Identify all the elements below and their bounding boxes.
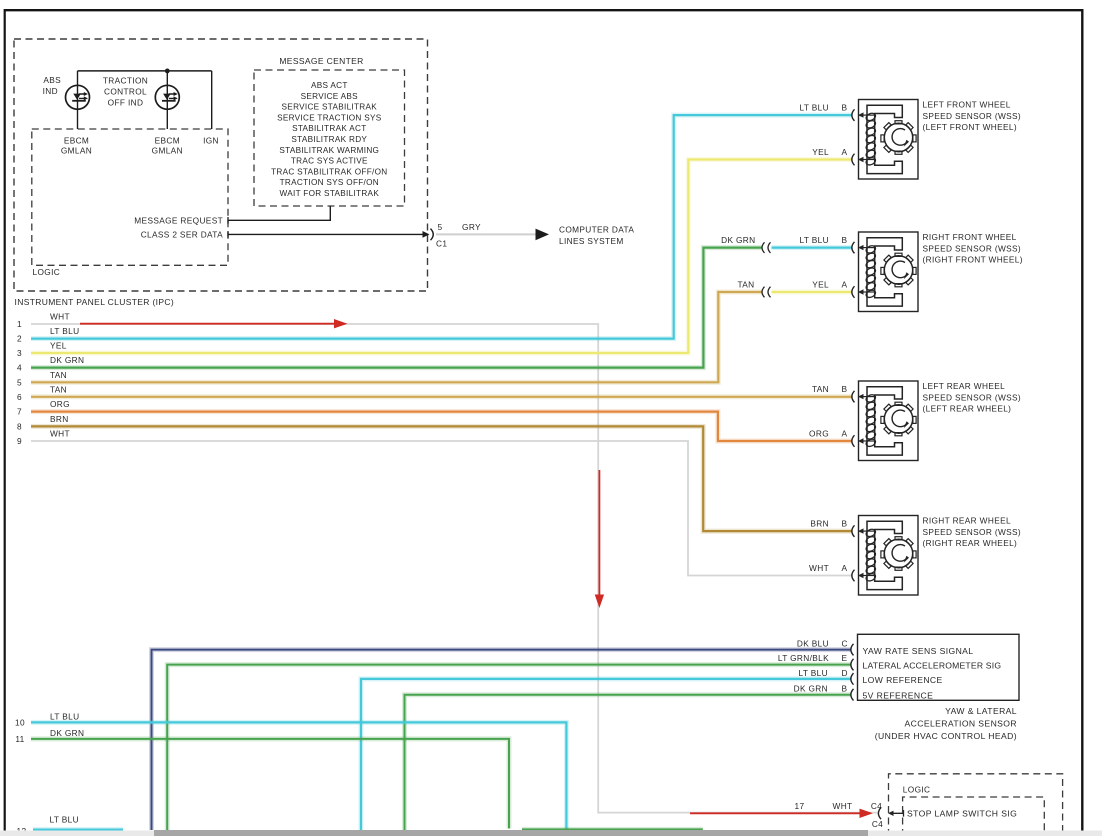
sensor right rear WSS [852,516,918,596]
svg-text:BRN: BRN [810,519,829,529]
svg-text:A: A [842,280,848,290]
sensor left front WSS [852,100,918,180]
wire 6 TAN [31,394,852,399]
svg-text:LEFT FRONT WHEEL: LEFT FRONT WHEEL [923,100,1011,110]
yaw sensor box [858,634,1020,700]
svg-text:2: 2 [17,334,22,344]
wire 4 DK GRN [31,248,762,368]
svg-text:A: A [842,147,848,157]
wire 9 WHT [31,441,852,576]
svg-text:(RIGHT FRONT WHEEL): (RIGHT FRONT WHEEL) [923,255,1023,265]
wire lamp1 vertical [77,71,79,129]
svg-text:EBCM: EBCM [64,136,89,146]
message center text list [271,81,387,198]
svg-text:A: A [842,563,848,573]
wire lamp2 vertical [166,71,168,129]
scrollbar track [0,831,1102,836]
svg-text:YEL: YEL [812,280,829,290]
svg-text:TAN: TAN [737,280,754,290]
wire LT BLU low ref [361,679,852,830]
svg-text:LOW REFERENCE: LOW REFERENCE [863,675,943,685]
connector C1 pin 5 [423,231,430,238]
wire 5 TAN [31,292,762,382]
svg-text:LT BLU: LT BLU [800,103,829,113]
wire 10 LT BLU [31,722,566,830]
svg-text:B: B [842,519,848,529]
svg-text:CONTROL: CONTROL [104,87,147,97]
sensor right front WSS [852,232,918,312]
svg-text:OFF IND: OFF IND [108,98,144,108]
LOGIC dashed box (EBCM) [889,774,1063,836]
svg-text:SPEED SENSOR (WSS): SPEED SENSOR (WSS) [923,243,1022,253]
svg-text:IND: IND [43,86,58,96]
svg-text:YEL: YEL [50,341,67,351]
svg-text:6: 6 [17,392,22,402]
svg-text:TAN: TAN [812,384,829,394]
splice S2 A [762,287,771,298]
svg-text:WAIT FOR STABILITRAK: WAIT FOR STABILITRAK [280,189,380,198]
svg-text:SERVICE STABILITRAK: SERVICE STABILITRAK [282,103,378,112]
svg-text:WHT: WHT [50,429,70,439]
frame left [4,9,6,831]
wire LT GRN/BLK lateral accel [167,665,851,830]
svg-text:TRACTION SYS OFF/ON: TRACTION SYS OFF/ON [280,178,379,187]
svg-text:LT GRN/BLK: LT GRN/BLK [778,653,829,663]
svg-text:DK GRN: DK GRN [50,355,84,365]
svg-text:B: B [842,103,848,113]
svg-text:MESSAGE REQUEST: MESSAGE REQUEST [134,215,223,225]
svg-text:GRY: GRY [462,222,481,232]
svg-text:TRAC SYS ACTIVE: TRAC SYS ACTIVE [291,157,368,166]
svg-text:ABS: ABS [43,75,61,85]
connector C4 socket [878,808,881,820]
svg-text:LOGIC: LOGIC [33,267,61,277]
svg-text:(UNDER HVAC CONTROL HEAD): (UNDER HVAC CONTROL HEAD) [875,731,1017,741]
svg-text:TRAC STABILITRAK OFF/ON: TRAC STABILITRAK OFF/ON [271,167,387,176]
svg-text:17: 17 [795,801,805,811]
wire 1 WHT [31,324,878,813]
scrollbar thumb [154,830,868,836]
svg-text:ABS ACT: ABS ACT [311,81,348,90]
svg-text:LT BLU: LT BLU [799,668,828,678]
svg-text:RIGHT REAR WHEEL: RIGHT REAR WHEEL [923,516,1011,526]
svg-text:11: 11 [15,734,24,744]
svg-text:YEL: YEL [812,147,829,157]
svg-text:B: B [842,235,848,245]
wire 12 LT BLU [33,827,123,832]
svg-text:TAN: TAN [50,370,67,380]
svg-text:YAW & LATERAL: YAW & LATERAL [945,706,1017,716]
wire class 2 serial data [228,233,425,235]
message center dashed box [254,70,405,206]
wire 2 LT BLU [31,115,852,339]
svg-text:WHT: WHT [50,312,70,322]
svg-text:E: E [842,653,848,663]
svg-text:MESSAGE CENTER: MESSAGE CENTER [279,56,363,66]
wire 8 BRN [31,426,852,531]
svg-text:C1: C1 [436,239,447,249]
wire 3 YEL [31,160,852,354]
svg-text:5: 5 [438,222,443,232]
svg-text:COMPUTER DATA: COMPUTER DATA [559,224,634,234]
red arrow wire 1 [80,323,336,325]
wire 5b YEL to sensor 2 pin A [772,290,852,295]
frame right [1081,9,1083,831]
svg-text:(LEFT REAR WHEEL): (LEFT REAR WHEEL) [923,404,1012,414]
svg-text:SERVICE ABS: SERVICE ABS [301,92,359,101]
svg-text:8: 8 [17,421,22,431]
svg-text:STABILITRAK RDY: STABILITRAK RDY [291,135,367,144]
svg-text:LT BLU: LT BLU [50,326,79,336]
svg-text:WHT: WHT [809,563,829,573]
stop lamp arrow [891,810,904,817]
svg-text:LT BLU: LT BLU [800,235,829,245]
stop lamp inner dashed box [903,797,1045,836]
svg-text:(LEFT FRONT WHEEL): (LEFT FRONT WHEEL) [923,122,1018,132]
svg-text:GMLAN: GMLAN [61,146,92,156]
svg-text:SPEED SENSOR (WSS): SPEED SENSOR (WSS) [923,527,1022,537]
red arrow down [598,470,600,596]
wire 7 ORG [31,412,852,441]
svg-text:B: B [842,683,848,693]
svg-text:DK GRN: DK GRN [721,235,755,245]
wire DK BLU yaw signal [152,650,852,830]
wire DK GRN partial bottom [522,827,703,832]
svg-text:SPEED SENSOR (WSS): SPEED SENSOR (WSS) [923,392,1022,402]
svg-text:C4: C4 [871,801,882,811]
svg-text:INSTRUMENT PANEL CLUSTER (IPC): INSTRUMENT PANEL CLUSTER (IPC) [15,297,175,307]
svg-text:7: 7 [17,407,22,417]
svg-text:D: D [842,668,848,678]
svg-text:TAN: TAN [50,384,67,394]
svg-text:LATERAL ACCELEROMETER SIG: LATERAL ACCELEROMETER SIG [863,660,1002,670]
wire 11 DK GRN [31,739,509,829]
svg-text:RIGHT FRONT WHEEL: RIGHT FRONT WHEEL [923,232,1017,242]
svg-text:WHT: WHT [833,801,853,811]
red arrow stop lamp [690,812,861,814]
svg-text:SPEED SENSOR (WSS): SPEED SENSOR (WSS) [923,111,1022,121]
wire 4b LT BLU to sensor 2 pin B [772,245,852,250]
svg-text:LT BLU: LT BLU [50,815,79,825]
svg-text:4: 4 [17,363,22,373]
svg-text:STABILITRAK ACT: STABILITRAK ACT [292,124,366,133]
svg-text:ORG: ORG [809,429,829,439]
svg-text:LINES SYSTEM: LINES SYSTEM [559,236,624,246]
indicator lamp ABS IND [66,85,90,109]
svg-text:CLASS 2 SER DATA: CLASS 2 SER DATA [141,229,223,239]
frame top [4,9,1083,11]
svg-text:9: 9 [17,436,22,446]
svg-text:EBCM: EBCM [155,136,180,146]
wire DK GRN 5v ref [405,695,852,830]
wire GRY to data lines [436,233,537,235]
wire IGN vertical [211,71,213,129]
svg-text:TRACTION: TRACTION [103,76,148,86]
junction dot [165,69,170,74]
svg-text:5V REFERENCE: 5V REFERENCE [863,691,934,701]
sensor left rear WSS [852,381,918,461]
yaw connector sockets [851,644,854,701]
svg-text:BRN: BRN [50,414,69,424]
LOGIC dashed box (IPC) [32,129,228,265]
arrow computer data lines [536,229,550,241]
svg-text:ORG: ORG [50,399,70,409]
svg-text:STOP LAMP SWITCH SIG: STOP LAMP SWITCH SIG [907,809,1017,819]
svg-text:B: B [842,384,848,394]
splice S2 B [762,242,771,253]
svg-text:LEFT REAR WHEEL: LEFT REAR WHEEL [923,381,1006,391]
indicator lamp TRACTION CONTROL OFF IND [155,85,179,109]
svg-text:A: A [842,429,848,439]
svg-text:IGN: IGN [203,136,219,146]
svg-text:STABILITRAK WARMING: STABILITRAK WARMING [279,146,379,155]
svg-text:5: 5 [17,377,22,387]
svg-text:DK GRN: DK GRN [794,683,828,693]
svg-text:LOGIC: LOGIC [903,784,931,794]
svg-text:(RIGHT REAR WHEEL): (RIGHT REAR WHEEL) [923,538,1018,548]
wire lamp feed top [78,70,212,72]
svg-text:YAW RATE SENS SIGNAL: YAW RATE SENS SIGNAL [863,646,974,656]
wire message request [228,206,330,220]
svg-text:GMLAN: GMLAN [152,146,183,156]
svg-text:1: 1 [17,319,22,329]
IPC dashed box [14,39,428,291]
svg-text:3: 3 [17,348,22,358]
svg-text:C4: C4 [872,819,883,829]
svg-text:ACCELERATION SENSOR: ACCELERATION SENSOR [905,718,1018,728]
svg-text:C: C [842,638,848,648]
svg-text:DK BLU: DK BLU [797,638,829,648]
svg-text:SERVICE TRACTION SYS: SERVICE TRACTION SYS [277,113,382,122]
svg-text:10: 10 [15,717,25,727]
